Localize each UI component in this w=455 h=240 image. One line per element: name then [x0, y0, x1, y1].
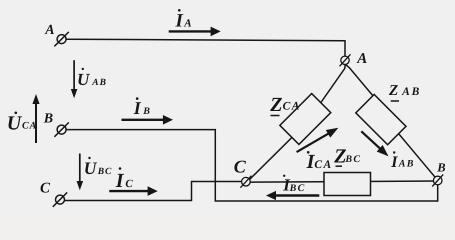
svg-text:AB: AB: [91, 78, 107, 88]
svg-text:CA: CA: [283, 101, 301, 113]
wire phase C: [65, 182, 242, 201]
svg-text:Z: Z: [388, 83, 398, 99]
current arrow I_A: [169, 27, 221, 37]
current arrow I_B: [122, 115, 174, 125]
voltage arrow U_AB: [71, 60, 78, 98]
svg-text:I: I: [175, 11, 184, 32]
current arrow I_C: [109, 186, 157, 196]
svg-text:CA: CA: [314, 159, 332, 171]
svg-text:U: U: [84, 158, 98, 178]
svg-text:CA: CA: [22, 121, 37, 132]
svg-text:A: A: [44, 23, 54, 38]
voltage arrow U_BC: [77, 154, 84, 191]
svg-text:U: U: [77, 70, 90, 89]
terminal C: [53, 192, 67, 206]
terminal B: [54, 122, 68, 136]
current arrow I_CA: [297, 124, 341, 152]
wire phase B: [66, 130, 438, 201]
svg-text:U: U: [7, 113, 23, 135]
svg-text:A: A: [183, 17, 191, 29]
impedance Z_AB: [356, 94, 406, 144]
svg-text:AB: AB: [398, 159, 415, 170]
svg-text:C: C: [125, 178, 133, 190]
delta side A-B: [345, 64, 438, 180]
svg-text:BC: BC: [97, 167, 113, 177]
delta side C-B: [246, 181, 438, 182]
svg-text:BC: BC: [344, 154, 361, 165]
svg-text:A: A: [356, 51, 367, 67]
current arrow I_BC: [266, 191, 319, 200]
node B: [432, 175, 443, 187]
svg-text:B: B: [43, 112, 53, 127]
impedance Z_CA: [280, 94, 331, 145]
svg-text:Z: Z: [269, 94, 282, 116]
wire phase A: [66, 39, 345, 56]
node C: [240, 176, 251, 188]
svg-text:I: I: [115, 170, 125, 192]
svg-text:C: C: [40, 181, 51, 197]
node A: [340, 54, 351, 66]
delta side C-A: [247, 64, 346, 182]
terminal A: [54, 32, 68, 46]
impedance Z_BC: [324, 173, 371, 196]
voltage arrow U_CA: [32, 94, 39, 143]
svg-text:B: B: [142, 106, 151, 117]
svg-text:C: C: [234, 157, 247, 177]
svg-text:B: B: [436, 160, 445, 174]
svg-text:I: I: [133, 98, 142, 118]
svg-text:I: I: [390, 154, 398, 171]
svg-text:AB: AB: [401, 86, 421, 98]
current arrow I_AB: [361, 131, 391, 159]
svg-text:BC: BC: [289, 183, 306, 194]
